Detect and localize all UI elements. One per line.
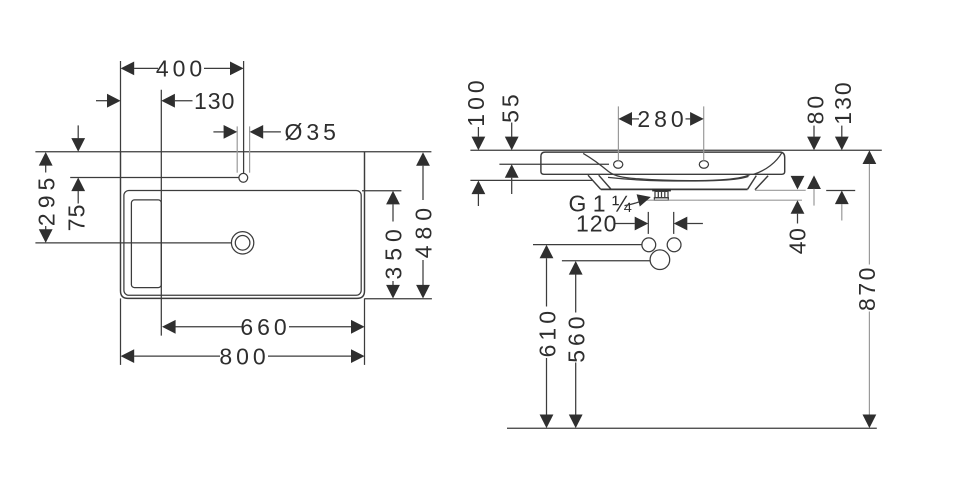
bowl bottom line bbox=[601, 188, 748, 190]
svg-text:870: 870 bbox=[854, 265, 880, 311]
dim 350 bbox=[380, 191, 406, 299]
dim 130 (right view) bbox=[830, 80, 856, 220]
wall line bbox=[470, 149, 881, 151]
mounting hole left bbox=[614, 161, 623, 169]
Ø35 tangent lines bbox=[236, 126, 238, 172]
svg-text:400: 400 bbox=[156, 56, 206, 82]
svg-text:610: 610 bbox=[534, 307, 560, 357]
dim 870 bbox=[854, 150, 880, 428]
tailpiece bottom reference line (40) bbox=[646, 199, 802, 201]
fixing hole right circle bbox=[667, 238, 681, 252]
svg-text:660: 660 bbox=[240, 314, 290, 340]
rim back edge line (55 reference) bbox=[499, 163, 609, 165]
bottom edge extension right bbox=[365, 298, 432, 300]
dim 40 bbox=[784, 176, 810, 254]
dim 610 bbox=[534, 245, 560, 428]
extension line left above bbox=[120, 61, 122, 152]
dim 400 bbox=[121, 56, 244, 82]
svg-text:75: 75 bbox=[64, 204, 90, 232]
dim 130 (left view) bbox=[96, 88, 235, 114]
svg-text:120: 120 bbox=[576, 211, 617, 237]
dim 295 bbox=[34, 152, 60, 243]
130 bottom reference line bbox=[826, 190, 855, 192]
610 reference line bbox=[533, 244, 642, 246]
mounting hole right bbox=[699, 161, 708, 169]
svg-text:55: 55 bbox=[498, 91, 524, 123]
interior lower curve bbox=[608, 176, 749, 181]
svg-text:295: 295 bbox=[34, 173, 60, 226]
extension line left below bbox=[120, 298, 122, 365]
bowl divider / extension line bbox=[160, 90, 162, 336]
drain outer circle bbox=[231, 232, 253, 254]
bowl bottom extension (gray) bbox=[755, 189, 806, 191]
drain reference line bbox=[35, 242, 231, 244]
dim 480 bbox=[410, 152, 436, 298]
dim 75 bbox=[64, 125, 90, 231]
100 reference line bbox=[470, 179, 592, 181]
basin outer outline bbox=[121, 152, 365, 299]
dim 560 bbox=[564, 261, 590, 428]
svg-text:40: 40 bbox=[784, 228, 810, 255]
dim Ø35 bbox=[213, 119, 340, 145]
faucet centerline bbox=[243, 61, 245, 173]
svg-text:80: 80 bbox=[802, 93, 828, 125]
floor line bbox=[507, 427, 877, 429]
drain tailpiece body bbox=[655, 191, 668, 197]
underside right slant outer bbox=[755, 176, 768, 190]
svg-text:100: 100 bbox=[463, 76, 489, 126]
faucet hole reference line bbox=[70, 177, 239, 179]
dim 800 bbox=[121, 343, 365, 369]
dim 55 bbox=[498, 91, 524, 194]
interior right wall curve bbox=[754, 153, 782, 174]
dim 120 bbox=[576, 211, 703, 237]
top edge line with extensions bbox=[35, 151, 431, 153]
label G 1 1/4 with leader bbox=[569, 190, 651, 216]
dim 80 bbox=[802, 93, 828, 206]
extension line right below bbox=[364, 298, 366, 365]
svg-text:800: 800 bbox=[219, 343, 269, 369]
dim 280 bbox=[618, 106, 703, 161]
svg-text:560: 560 bbox=[564, 312, 590, 362]
inner rim extension right bbox=[362, 190, 401, 192]
svg-text:130: 130 bbox=[830, 80, 856, 124]
basin slab outline bbox=[541, 152, 785, 174]
svg-text:Ø35: Ø35 bbox=[285, 119, 340, 145]
underside right slant inner bbox=[748, 176, 757, 190]
tailpiece thread hatches bbox=[657, 191, 659, 197]
dim 100 bbox=[463, 76, 489, 206]
svg-text:480: 480 bbox=[410, 202, 436, 258]
underside left slant inner bbox=[599, 175, 612, 189]
underside left slant outer bbox=[588, 175, 601, 189]
basin inner rim bbox=[124, 191, 361, 296]
interior bowl curve bbox=[583, 153, 750, 180]
fixing hole left circle bbox=[642, 238, 656, 252]
svg-text:130: 130 bbox=[194, 88, 235, 114]
drain tailpiece flange bbox=[652, 189, 671, 192]
faucet hole bbox=[239, 173, 248, 182]
siphon circle bbox=[650, 250, 670, 270]
drain inner circle bbox=[235, 236, 250, 251]
560 reference line bbox=[562, 260, 650, 262]
shelf recess bbox=[131, 200, 161, 288]
svg-text:350: 350 bbox=[380, 223, 406, 279]
tailpiece bottom flange bbox=[654, 198, 668, 201]
svg-text:280: 280 bbox=[637, 106, 687, 132]
dim 660 bbox=[162, 314, 365, 340]
